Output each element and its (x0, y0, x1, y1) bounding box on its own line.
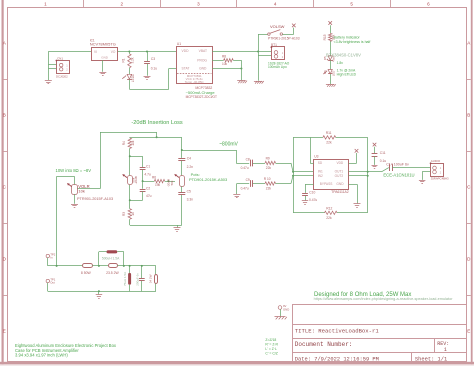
svg-text:R15: R15 (323, 34, 327, 40)
svg-text:IN2: IN2 (318, 174, 323, 178)
svg-text:https://www.alexsamps.com/inde: https://www.alexsamps.com/index.php/desi… (314, 297, 454, 301)
svg-text:VO: VO (111, 50, 116, 54)
svg-text:GND: GND (336, 182, 344, 186)
svg-text:VDD: VDD (336, 161, 343, 165)
svg-text:C8: C8 (246, 158, 250, 162)
svg-text:SD: SD (318, 161, 323, 165)
svg-text:VBAT: VBAT (199, 49, 207, 53)
svg-text:GND: GND (283, 308, 289, 312)
svg-text:NCV78M05TG: NCV78M05TG (90, 42, 116, 47)
svg-text:4: 4 (274, 2, 277, 7)
svg-text:C14 100uF 6v: C14 100uF 6v (386, 162, 409, 166)
svg-text:Document Number:: Document Number: (295, 341, 353, 348)
svg-text:~800mV: ~800mV (219, 142, 238, 148)
svg-text:4.7u: 4.7u (144, 172, 151, 176)
svg-text:50k: 50k (170, 180, 174, 185)
svg-text:500uH 1.5A: 500uH 1.5A (102, 257, 120, 261)
svg-text:6: 6 (427, 2, 430, 7)
svg-text:5: 5 (350, 2, 353, 7)
svg-text:C10: C10 (309, 191, 315, 195)
svg-text:R1: R1 (122, 58, 126, 62)
svg-text:2.2n: 2.2n (187, 165, 194, 169)
svg-text:R11: R11 (326, 131, 332, 135)
svg-text:Sheet: 1/1: Sheet: 1/1 (415, 357, 447, 363)
svg-text:200uF 6v: 200uF 6v (136, 273, 140, 286)
svg-text:-20dB: -20dB (134, 176, 138, 184)
svg-text:22k: 22k (266, 186, 272, 190)
svg-text:OUT2: OUT2 (335, 174, 344, 178)
svg-text:CN1: CN1 (57, 56, 63, 60)
svg-text:D6: D6 (323, 70, 327, 74)
svg-text:C1: C1 (146, 165, 150, 169)
svg-text:TPA6111A2: TPA6111A2 (331, 190, 349, 194)
svg-text:0.47u: 0.47u (241, 166, 249, 170)
svg-text:PROG: PROG (197, 58, 207, 62)
svg-text:C3: C3 (151, 57, 155, 61)
svg-text:10k: 10k (131, 140, 135, 146)
svg-text:B: B (467, 113, 470, 118)
svg-text:R 10: R 10 (264, 177, 271, 181)
svg-text:BZX384S0-C1V8V: BZX384S0-C1V8V (326, 53, 361, 58)
svg-text:R4: R4 (122, 141, 126, 145)
svg-text:PTD901-2015K-A503: PTD901-2015K-A503 (189, 177, 228, 182)
svg-text:U3: U3 (314, 155, 318, 159)
svg-text:L' = Z·L: L' = Z·L (265, 347, 277, 351)
svg-text:-20dB Insertion Loss: -20dB Insertion Loss (131, 120, 183, 126)
svg-text:PTR901-2015F-A103: PTR901-2015F-A103 (77, 197, 113, 201)
svg-text:<3.8v brightness is half: <3.8v brightness is half (334, 40, 371, 44)
svg-text:1: 1 (444, 347, 447, 353)
svg-text:R6: R6 (152, 176, 156, 180)
svg-text:10k: 10k (222, 62, 228, 66)
svg-text:75uH 1.5A: 75uH 1.5A (123, 272, 127, 286)
svg-text:B: B (3, 113, 6, 118)
svg-text:LED: LED (331, 71, 335, 76)
svg-text:1: 1 (44, 2, 47, 7)
svg-text:10k: 10k (78, 188, 84, 193)
svg-text:34 2W: 34 2W (149, 274, 153, 283)
svg-text:E: E (3, 329, 6, 334)
svg-text:R' = Z·R: R' = Z·R (265, 342, 278, 346)
svg-text:AUDIO: AUDIO (431, 159, 441, 163)
svg-text:3.3n: 3.3n (187, 198, 194, 202)
svg-text:23.5 2W: 23.5 2W (106, 271, 119, 275)
svg-text:ECE-A1CN101U: ECE-A1CN101U (383, 172, 414, 177)
svg-text:R3: R3 (122, 212, 126, 216)
svg-text:22k: 22k (326, 141, 332, 145)
svg-text:8 50W: 8 50W (81, 271, 92, 275)
svg-text:BYPASS: BYPASS (320, 182, 333, 186)
svg-text:Z=Z/18: Z=Z/18 (265, 338, 276, 342)
svg-text:Temp -40-85C: Temp -40-85C (185, 80, 205, 84)
svg-text:Out: Out (50, 281, 55, 285)
svg-text:BT1: BT1 (271, 43, 277, 47)
svg-text:R12: R12 (326, 207, 332, 211)
svg-text:100mAh Lipo: 100mAh Lipo (268, 65, 287, 69)
svg-text:R8: R8 (222, 54, 226, 58)
svg-text:VOLSW: VOLSW (270, 24, 285, 29)
svg-text:1.8v: 1.8v (337, 61, 344, 65)
svg-text:VI: VI (94, 50, 97, 54)
svg-text:3: 3 (197, 2, 200, 7)
svg-text:STAT: STAT (182, 67, 190, 71)
svg-text:Date: 7/9/2022 12:16:59 PM: Date: 7/9/2022 12:16:59 PM (295, 357, 379, 363)
svg-text:19k: 19k (155, 183, 161, 187)
svg-text:C4: C4 (187, 157, 191, 161)
svg-text:3.94 x3.94 x1.97 inch (LWH): 3.94 x3.94 x1.97 inch (LWH) (15, 353, 68, 358)
svg-text:10W into 8Ω = ~8V: 10W into 8Ω = ~8V (56, 168, 92, 173)
svg-text:35RAPC4BH3: 35RAPC4BH3 (431, 177, 449, 181)
svg-text:0.47u: 0.47u (241, 186, 249, 190)
svg-text:1k: 1k (131, 212, 135, 216)
svg-text:2: 2 (121, 2, 124, 7)
svg-text:DCJ0202: DCJ0202 (56, 74, 68, 78)
svg-text:C11: C11 (380, 151, 386, 155)
svg-text:C' = C/Z: C' = C/Z (265, 351, 277, 355)
svg-text:E: E (467, 329, 470, 334)
svg-text:MCP73832T-2DCI/OT: MCP73832T-2DCI/OT (186, 95, 217, 99)
svg-text:High Eff LED: High Eff LED (337, 72, 357, 76)
svg-text:C2: C2 (146, 186, 150, 190)
svg-text:0.1u: 0.1u (151, 66, 158, 70)
svg-text:GND: GND (101, 55, 109, 59)
svg-text:TITLE: ReactiveLoadBox-r1: TITLE: ReactiveLoadBox-r1 (295, 328, 380, 335)
svg-text:22k: 22k (266, 166, 272, 170)
svg-text:47u: 47u (146, 194, 152, 198)
svg-text:GND: GND (199, 67, 207, 71)
svg-text:3.2k: 3.2k (131, 57, 135, 63)
svg-text:0.47u: 0.47u (309, 198, 317, 202)
svg-text:VDD: VDD (182, 49, 190, 53)
svg-text:R9: R9 (266, 157, 270, 161)
svg-text:22k: 22k (326, 216, 332, 220)
svg-text:U1: U1 (177, 42, 181, 46)
svg-text:Battery Indicator: Battery Indicator (334, 35, 361, 39)
svg-text:C9: C9 (246, 178, 250, 182)
svg-text:LED1: LED1 (131, 74, 135, 82)
svg-text:PTR901-2015P-A103: PTR901-2015P-A103 (268, 37, 300, 41)
svg-text:C5: C5 (187, 190, 191, 194)
